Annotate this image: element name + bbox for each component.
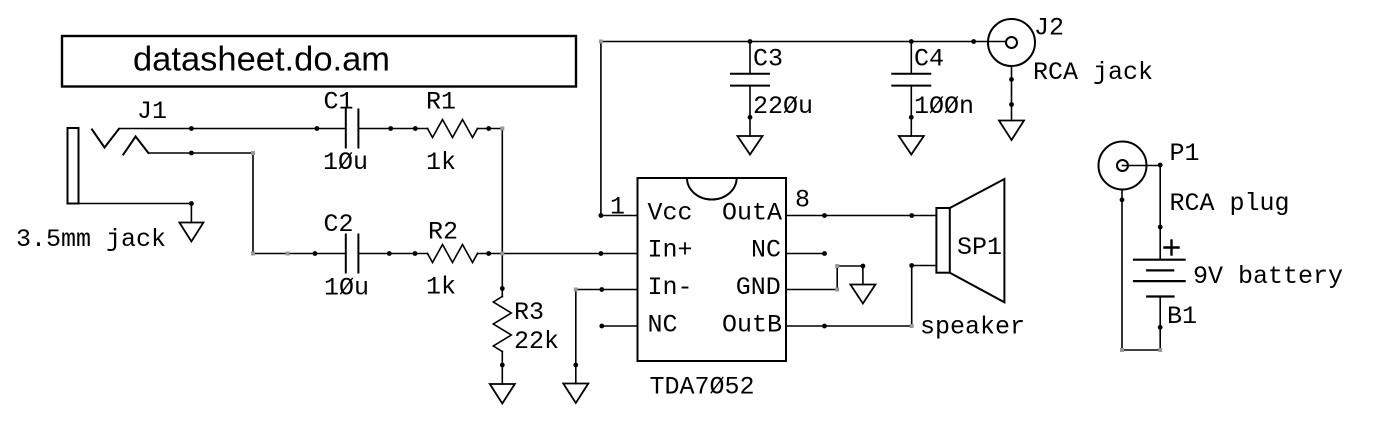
marker return b bbox=[1158, 348, 1162, 352]
connector J1 body bbox=[68, 128, 79, 204]
svg-text:22Øu: 22Øu bbox=[753, 92, 813, 121]
svg-text:1k: 1k bbox=[426, 148, 456, 177]
wire bus vertical R1 R2 R3 bbox=[501, 129, 503, 297]
svg-text:OutB: OutB bbox=[722, 311, 782, 340]
wire Vcc pin bbox=[601, 215, 638, 217]
marker In- end bbox=[574, 288, 578, 292]
wire jack ring to row2 bbox=[148, 153, 345, 254]
capacitor C4 bbox=[910, 42, 912, 74]
node Vcc pin bbox=[599, 213, 604, 218]
wire P1 shield bbox=[1121, 190, 1123, 351]
ground C3 bbox=[738, 136, 763, 155]
capacitor C3 bbox=[749, 42, 751, 74]
node row2 e bbox=[599, 251, 604, 256]
J1 tip contact bbox=[92, 129, 119, 148]
battery B1 plus sign bbox=[1165, 246, 1179, 248]
node C4 bottom bbox=[909, 115, 914, 120]
node C3 bottom bbox=[748, 115, 753, 120]
wire P1 to battery bbox=[1159, 166, 1161, 260]
svg-text:P1: P1 bbox=[1170, 139, 1200, 168]
node P1 shield bbox=[1120, 197, 1125, 202]
wire Vcc vertical bbox=[600, 42, 602, 216]
node bus R3 top bbox=[500, 286, 505, 291]
corner marker row1 bbox=[500, 127, 504, 131]
ground C4 bbox=[899, 136, 924, 155]
svg-text:C4: C4 bbox=[914, 45, 944, 74]
wire OutB pin bbox=[786, 266, 936, 327]
capacitor C1 bbox=[345, 110, 347, 148]
node GND bbox=[861, 264, 866, 269]
wire NC right pin bbox=[786, 253, 824, 255]
node NC right bbox=[822, 251, 827, 256]
svg-text:datasheet.do.am: datasheet.do.am bbox=[133, 41, 390, 79]
wire R3 to ground bbox=[501, 352, 503, 366]
ground C4 stub bbox=[910, 117, 912, 136]
capacitor C2 bbox=[345, 235, 347, 273]
node rail J2 bbox=[971, 39, 976, 44]
node NC left bbox=[599, 324, 604, 329]
resistor R1 bbox=[428, 120, 478, 138]
connector J2 outer bbox=[988, 19, 1035, 66]
corner marker row2 left bbox=[251, 252, 255, 256]
speaker SP1 horn bbox=[950, 179, 1005, 302]
wire C1 to R1 bbox=[358, 128, 427, 130]
svg-text:Vcc: Vcc bbox=[648, 199, 693, 228]
ground J2 bbox=[999, 121, 1024, 141]
svg-text:TDA7Ø52: TDA7Ø52 bbox=[650, 373, 755, 402]
svg-text:C1: C1 bbox=[324, 88, 354, 117]
wire R2 to In+ bbox=[478, 253, 638, 255]
node row1 c bbox=[388, 126, 393, 131]
connector P1 inner bbox=[1117, 160, 1128, 171]
ground GND stub bbox=[862, 266, 864, 285]
svg-text:8: 8 bbox=[795, 186, 810, 215]
node J2 shield a bbox=[1009, 77, 1014, 82]
ground C3 stub bbox=[749, 117, 751, 136]
node rail C3 bbox=[748, 39, 753, 44]
svg-text:In-: In- bbox=[648, 273, 693, 302]
node row2 c bbox=[413, 251, 418, 256]
svg-text:J1: J1 bbox=[137, 97, 167, 126]
svg-text:C3: C3 bbox=[753, 45, 783, 74]
title box bbox=[62, 36, 576, 87]
wire J2 shield bbox=[1011, 66, 1013, 121]
marker OutB corner bbox=[910, 324, 914, 328]
wire NC left pin bbox=[602, 325, 638, 327]
resistor R3 bbox=[493, 297, 511, 352]
svg-text:In+: In+ bbox=[648, 236, 693, 265]
wire battery bottom bbox=[1159, 297, 1161, 351]
node row2 d bbox=[486, 251, 491, 256]
IC U1 TDA7052 body bbox=[638, 178, 787, 361]
wire P1 pin bbox=[1123, 165, 1161, 167]
junction marker bus row2 bbox=[500, 252, 504, 256]
J1 ring contact bbox=[123, 137, 148, 155]
svg-text:B1: B1 bbox=[1167, 302, 1197, 331]
wire row1 tip to C1 bbox=[119, 128, 346, 130]
marker return a bbox=[1120, 348, 1124, 352]
svg-text:J2: J2 bbox=[1034, 14, 1064, 43]
ground jack bbox=[179, 223, 203, 242]
svg-text:RCA plug: RCA plug bbox=[1170, 189, 1290, 218]
node In- ground bbox=[573, 363, 578, 368]
svg-text:OutA: OutA bbox=[722, 199, 782, 228]
svg-text:SP1: SP1 bbox=[957, 233, 1002, 262]
node OutB b bbox=[909, 263, 914, 268]
wire In- to ground bbox=[575, 290, 577, 366]
power rail top bbox=[601, 41, 1006, 43]
svg-text:9V battery: 9V battery bbox=[1193, 262, 1343, 291]
ground R3 bbox=[490, 384, 515, 404]
svg-text:1k: 1k bbox=[426, 273, 456, 302]
ground In- stub bbox=[575, 365, 577, 384]
IC notch bbox=[687, 178, 737, 200]
node battery bottom bbox=[1158, 325, 1163, 330]
node row2 a bbox=[313, 251, 318, 256]
node jack sleeve bbox=[189, 201, 194, 206]
svg-text:1ØØn: 1ØØn bbox=[914, 92, 974, 121]
svg-text:1: 1 bbox=[610, 193, 625, 222]
svg-text:R1: R1 bbox=[426, 88, 456, 117]
marker GND a bbox=[835, 288, 839, 292]
wire battery return bottom bbox=[1122, 349, 1160, 351]
battery B1 plates bbox=[1134, 259, 1185, 261]
svg-text:3.5mm jack: 3.5mm jack bbox=[16, 225, 166, 254]
svg-text:GND: GND bbox=[736, 273, 781, 302]
svg-text:R2: R2 bbox=[428, 218, 458, 247]
svg-text:speaker: speaker bbox=[920, 313, 1025, 342]
svg-text:1Øu: 1Øu bbox=[324, 273, 369, 302]
marker rail left end bbox=[599, 40, 603, 44]
speaker SP1 body bbox=[936, 208, 949, 273]
node OutB a bbox=[822, 324, 827, 329]
node row1 a bbox=[189, 126, 194, 131]
svg-text:RCA jack: RCA jack bbox=[1033, 58, 1153, 87]
wire C2 to R2 bbox=[358, 253, 427, 255]
node R3 bottom bbox=[500, 363, 505, 368]
node row1 d bbox=[413, 126, 418, 131]
corner marker ring bbox=[251, 151, 255, 155]
svg-text:C2: C2 bbox=[324, 210, 354, 239]
node P1 pin bbox=[1158, 163, 1163, 168]
ground GND bbox=[850, 285, 875, 304]
svg-text:NC: NC bbox=[751, 236, 781, 265]
marker GND b bbox=[835, 264, 839, 268]
wire R1 to bus bbox=[478, 128, 503, 130]
resistor R2 bbox=[428, 245, 478, 263]
jack sleeve wire to ground bbox=[79, 203, 192, 205]
node row1 e bbox=[486, 126, 491, 131]
svg-text:NC: NC bbox=[648, 311, 678, 340]
ground R3 stub bbox=[501, 365, 503, 384]
node ring wire bbox=[189, 151, 194, 156]
marker row2 gray bbox=[286, 252, 290, 256]
node row2 b bbox=[387, 251, 392, 256]
svg-text:R3: R3 bbox=[514, 298, 544, 327]
node rail C4 bbox=[909, 39, 914, 44]
svg-text:22k: 22k bbox=[514, 327, 559, 356]
node J2 shield b bbox=[1009, 102, 1014, 107]
ground jack stub bbox=[190, 204, 192, 223]
ground In- bbox=[563, 384, 588, 404]
node row1 b bbox=[315, 126, 320, 131]
connector P1 outer bbox=[1099, 142, 1147, 190]
wire OutA pin bbox=[786, 215, 936, 217]
svg-text:1Øu: 1Øu bbox=[323, 148, 368, 177]
node OutA a bbox=[822, 213, 827, 218]
wire GND pin bbox=[786, 266, 863, 290]
node battery top bbox=[1158, 225, 1163, 230]
connector J2 inner bbox=[1006, 37, 1017, 48]
node In- wire bbox=[599, 287, 604, 292]
node OutA b bbox=[909, 213, 914, 218]
wire In- pin bbox=[576, 289, 638, 291]
